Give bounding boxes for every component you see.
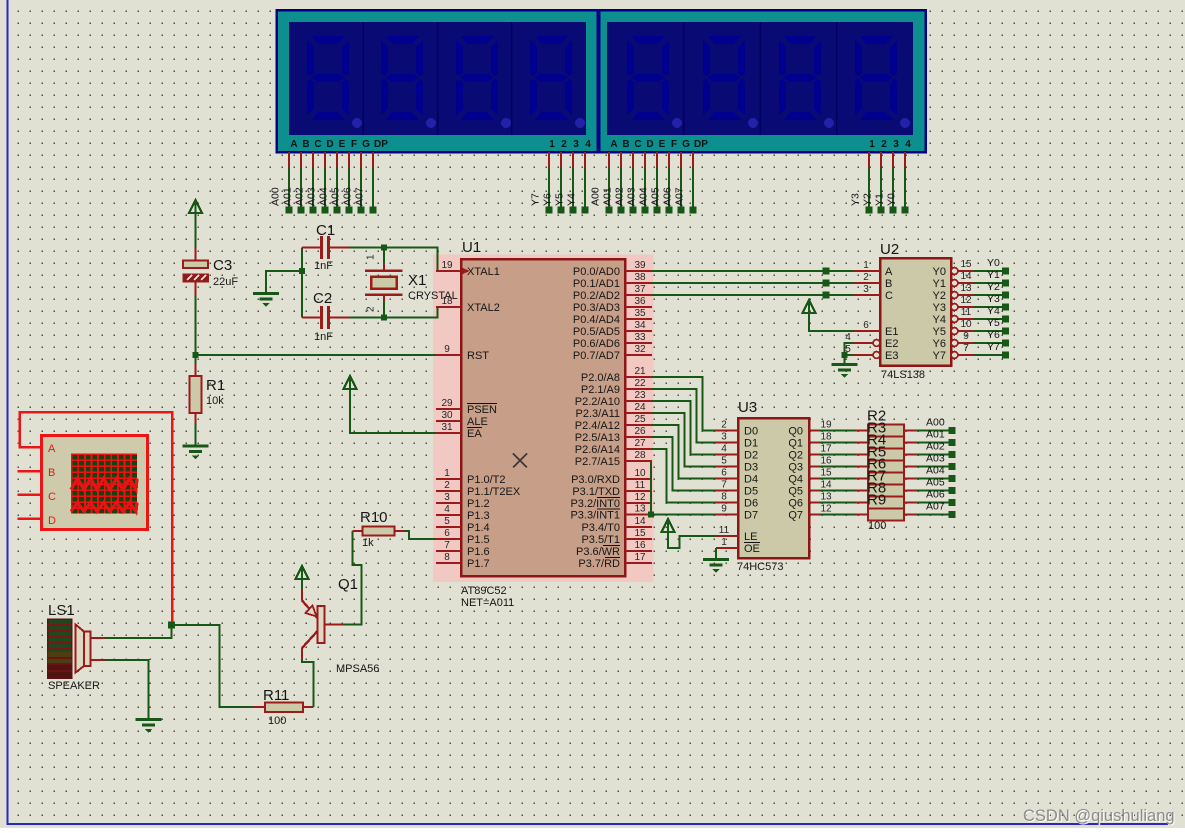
junction P2.7/P3.3 bbox=[648, 512, 654, 518]
svg-text:A01: A01 bbox=[926, 429, 945, 441]
capacitor C3 bbox=[183, 261, 208, 269]
wire VCC to Q1 emitter bbox=[301, 579, 303, 590]
svg-text:D1: D1 bbox=[744, 438, 758, 450]
svg-text:26: 26 bbox=[634, 426, 646, 437]
svg-text:1: 1 bbox=[444, 468, 450, 479]
U1 pin 37 (P0.2/AD2) bbox=[625, 294, 652, 296]
wire C3 to RST node bbox=[195, 282, 197, 296]
matrix LED grid bbox=[71, 454, 137, 514]
svg-text:C2: C2 bbox=[313, 290, 332, 307]
svg-text:1: 1 bbox=[549, 139, 555, 150]
svg-text:Q4: Q4 bbox=[788, 474, 803, 486]
svg-text:10k: 10k bbox=[206, 395, 224, 407]
svg-text:R9: R9 bbox=[867, 492, 886, 509]
terminal A05 bbox=[949, 487, 956, 494]
wire terminal Y4 bbox=[584, 152, 586, 167]
wire U2 Y0 output to terminal bbox=[974, 270, 1002, 272]
svg-text:2: 2 bbox=[444, 480, 450, 491]
U2 pin 12 (Y3) bbox=[951, 304, 958, 311]
U1 pin 16 (P3.6/WR) bbox=[625, 550, 652, 552]
U1 pin 27 (P2.6/A14) bbox=[625, 448, 652, 450]
U1 pin 10 (P3.0/RXD) bbox=[625, 478, 652, 480]
wire Q6 to resistor R8 bbox=[819, 502, 856, 504]
U1 pin 24 (P2.3/A11) bbox=[625, 412, 652, 414]
resistor R9 bbox=[856, 513, 869, 515]
svg-text:P3.2/INT0: P3.2/INT0 bbox=[570, 498, 620, 510]
svg-text:A02: A02 bbox=[926, 441, 945, 453]
wire P0.1 to U2 (net A B C) bbox=[652, 282, 854, 284]
svg-text:E3: E3 bbox=[885, 350, 898, 362]
svg-text:A05: A05 bbox=[650, 187, 662, 206]
wire terminal A07 bbox=[372, 152, 374, 167]
wire R6 to terminal A04 bbox=[917, 478, 950, 480]
U1 pin 38 (P0.1/AD1) bbox=[625, 282, 652, 284]
svg-text:24: 24 bbox=[634, 402, 646, 413]
power symbol VCC for U3 LE bbox=[662, 519, 675, 532]
svg-text:A05: A05 bbox=[330, 187, 342, 206]
resistor R10 bbox=[353, 530, 363, 532]
svg-text:Q3: Q3 bbox=[788, 462, 803, 474]
wire R9 to terminal A07 bbox=[917, 514, 950, 516]
svg-text:15: 15 bbox=[820, 468, 832, 479]
svg-text:A01: A01 bbox=[282, 187, 294, 206]
terminal Y1 bbox=[1002, 280, 1009, 287]
terminal A06 bbox=[949, 499, 956, 506]
resistor R5 bbox=[856, 465, 869, 467]
7-segment display DS2 body bbox=[599, 10, 926, 152]
wire P2.2 to U3 D2 bbox=[652, 401, 716, 455]
U3 pin 13 (Q6) bbox=[809, 501, 819, 503]
svg-text:P0.3/AD3: P0.3/AD3 bbox=[573, 302, 620, 314]
svg-text:P2.6/A14: P2.6/A14 bbox=[575, 444, 620, 456]
svg-text:Q2: Q2 bbox=[788, 450, 803, 462]
svg-text:Y2: Y2 bbox=[933, 290, 946, 302]
svg-text:G: G bbox=[682, 139, 690, 150]
svg-text:Y2: Y2 bbox=[987, 281, 1000, 293]
svg-text:4: 4 bbox=[905, 139, 911, 150]
crystal X1 bbox=[383, 248, 385, 264]
svg-text:P3.6/WR: P3.6/WR bbox=[576, 546, 620, 558]
svg-text:C3: C3 bbox=[213, 257, 232, 274]
U3 pin 15 (Q4) bbox=[809, 477, 819, 479]
speaker cone bbox=[76, 625, 85, 673]
svg-text:Y5: Y5 bbox=[933, 326, 946, 338]
wire Q1 to resistor R3 bbox=[819, 442, 856, 444]
display DS2 digit 4 bbox=[855, 36, 897, 120]
svg-text:74LS138: 74LS138 bbox=[881, 369, 925, 381]
wire terminal Y5 bbox=[572, 152, 574, 167]
svg-text:2: 2 bbox=[863, 272, 869, 283]
svg-text:F: F bbox=[351, 139, 357, 150]
svg-text:EA: EA bbox=[467, 428, 482, 440]
wire terminal A06 bbox=[680, 152, 682, 167]
U1 pin 39 (P0.0/AD0) bbox=[625, 270, 652, 272]
U3 pin 19 (Q0) bbox=[809, 429, 819, 431]
U2 pin 9 (Y6) bbox=[951, 340, 958, 347]
U1 pin 36 (P0.3/AD3) bbox=[625, 306, 652, 308]
wire U2 E2/E3 to ground bbox=[845, 343, 855, 364]
svg-text:31: 31 bbox=[441, 422, 453, 433]
U1 pin 25 (P2.4/A12) bbox=[625, 424, 652, 426]
svg-text:Q5: Q5 bbox=[788, 486, 803, 498]
svg-text:2: 2 bbox=[721, 420, 727, 431]
svg-text:P1.1/T2EX: P1.1/T2EX bbox=[467, 486, 521, 498]
svg-text:DP: DP bbox=[374, 139, 388, 150]
7-segment display DS1 body bbox=[277, 10, 598, 152]
U1 pin 11 (P3.1/TXD) bbox=[625, 490, 652, 492]
wire terminal Y6 bbox=[560, 152, 562, 167]
svg-text:ALE: ALE bbox=[467, 416, 488, 428]
U3 pin 11 (LE) bbox=[716, 535, 738, 537]
display DS2 digit 3 bbox=[779, 36, 821, 120]
node X1 pin1 junction bbox=[381, 245, 387, 251]
svg-text:Y4: Y4 bbox=[987, 305, 1000, 317]
svg-text:6: 6 bbox=[444, 528, 450, 539]
resistor R7 bbox=[856, 489, 869, 491]
wire terminal A01 bbox=[620, 152, 622, 167]
node speaker/R11/matrix junction bbox=[168, 622, 175, 629]
terminal Y6 bbox=[1002, 340, 1009, 347]
svg-text:MPSA56: MPSA56 bbox=[336, 663, 379, 675]
svg-text:C: C bbox=[634, 139, 641, 150]
svg-text:E: E bbox=[659, 139, 666, 150]
svg-text:100: 100 bbox=[268, 715, 286, 727]
wire C2 to XTAL2 node bbox=[350, 307, 438, 318]
resistor R11 bbox=[254, 706, 266, 708]
svg-text:E: E bbox=[339, 139, 346, 150]
U3 pin 14 (Q5) bbox=[809, 489, 819, 491]
wire R7 to terminal A05 bbox=[917, 490, 950, 492]
svg-text:A: A bbox=[885, 266, 893, 278]
U1 pin 3 (P1.2) bbox=[436, 502, 461, 504]
svg-text:D7: D7 bbox=[744, 510, 758, 522]
wire VCC to U3 LE bbox=[668, 532, 716, 548]
U1 pin 35 (P0.4/AD4) bbox=[625, 318, 652, 320]
svg-text:5: 5 bbox=[444, 516, 450, 527]
svg-text:1: 1 bbox=[721, 537, 727, 548]
svg-text:9: 9 bbox=[444, 344, 450, 355]
svg-text:1nF: 1nF bbox=[314, 260, 333, 272]
svg-text:LS1: LS1 bbox=[48, 602, 75, 619]
wire VCC to U2 E1 bbox=[809, 313, 854, 331]
svg-text:39: 39 bbox=[634, 260, 646, 271]
svg-text:XTAL2: XTAL2 bbox=[467, 302, 500, 314]
terminal Y7 bbox=[1002, 352, 1009, 359]
power symbol VCC for Q1 emitter bbox=[296, 566, 309, 579]
svg-text:A03: A03 bbox=[626, 187, 638, 206]
U1 pin 5 (P1.4) bbox=[436, 526, 461, 528]
U2 pin 4 (E2) bbox=[854, 342, 873, 344]
svg-text:22uF: 22uF bbox=[213, 276, 238, 288]
svg-text:R10: R10 bbox=[360, 509, 388, 526]
U3 pin 3 (D1) bbox=[716, 441, 738, 443]
U2 pin 7 (Y7) bbox=[951, 352, 958, 359]
svg-text:B: B bbox=[48, 467, 55, 479]
wire matrix pin A loop (bright red) bbox=[20, 412, 173, 622]
U1 pin 33 (P0.6/AD6) bbox=[625, 342, 652, 344]
svg-text:32: 32 bbox=[634, 344, 646, 355]
wire R4 to terminal A02 bbox=[917, 454, 950, 456]
display DS1 digit 2 bbox=[381, 36, 423, 120]
U2 pin 3 (C) bbox=[854, 294, 880, 296]
svg-text:C1: C1 bbox=[316, 222, 335, 239]
svg-text:P1.0/T2: P1.0/T2 bbox=[467, 474, 506, 486]
svg-text:8: 8 bbox=[444, 552, 450, 563]
display DS2 digit 2 bbox=[703, 36, 745, 120]
speaker terminal - wire to ground bbox=[91, 659, 106, 661]
svg-text:D4: D4 bbox=[744, 474, 758, 486]
svg-text:A04: A04 bbox=[926, 465, 945, 477]
wire U2 Y4 output to terminal bbox=[974, 318, 1002, 320]
svg-text:2: 2 bbox=[561, 139, 567, 150]
svg-text:16: 16 bbox=[634, 540, 646, 551]
U1 pin 4 (P1.3) bbox=[436, 514, 461, 516]
U3 pin 7 (D5) bbox=[716, 489, 738, 491]
svg-text:A07: A07 bbox=[926, 501, 945, 513]
svg-text:35: 35 bbox=[634, 308, 646, 319]
svg-text:E1: E1 bbox=[885, 326, 898, 338]
svg-text:4: 4 bbox=[444, 504, 450, 515]
svg-text:R11: R11 bbox=[263, 687, 289, 704]
svg-text:Y0: Y0 bbox=[933, 266, 946, 278]
svg-text:36: 36 bbox=[634, 296, 646, 307]
svg-text:P0.7/AD7: P0.7/AD7 bbox=[573, 350, 620, 362]
svg-text:P2.5/A13: P2.5/A13 bbox=[575, 432, 620, 444]
wire terminal Y2 bbox=[880, 152, 882, 167]
ground below U3 OE bbox=[703, 560, 729, 574]
svg-text:B: B bbox=[302, 139, 309, 150]
U2 pin 13 (Y2) bbox=[951, 292, 958, 299]
svg-text:A07: A07 bbox=[674, 187, 686, 206]
svg-text:11: 11 bbox=[635, 480, 646, 491]
svg-text:DP: DP bbox=[694, 139, 708, 150]
wire P2.5 to U3 D5 bbox=[652, 437, 716, 491]
wire C1 left / C2 left vertical bbox=[301, 248, 303, 318]
svg-text:D: D bbox=[646, 139, 653, 150]
U1 pin 9 (RST) bbox=[436, 354, 461, 356]
U1 center X mark bbox=[513, 454, 527, 468]
svg-text:2: 2 bbox=[366, 306, 377, 312]
svg-text:Y7: Y7 bbox=[933, 350, 946, 362]
transistor Q1 MPSA56 bbox=[301, 590, 303, 601]
wire terminal A06 bbox=[360, 152, 362, 167]
U1 pin 7 (P1.6) bbox=[436, 550, 461, 552]
power symbol VCC above C3 bbox=[189, 200, 202, 213]
U1 PSEN overline bbox=[467, 403, 497, 405]
power symbol VCC for U2 E1 bbox=[803, 300, 816, 313]
decoder U2 74LS138 body bbox=[880, 258, 951, 366]
svg-text:C: C bbox=[314, 139, 321, 150]
wire terminal Y7 bbox=[548, 152, 550, 167]
svg-text:A06: A06 bbox=[662, 187, 674, 206]
terminal A04 bbox=[949, 475, 956, 482]
svg-text:P2.4/A12: P2.4/A12 bbox=[575, 420, 620, 432]
svg-text:3: 3 bbox=[893, 139, 899, 150]
U1 pin 31 (EA) bbox=[436, 432, 461, 434]
latch U3 74HC573 body bbox=[738, 418, 809, 558]
U1 pin 15 (P3.5/T1) bbox=[625, 538, 652, 540]
U1 pin 8 (P1.7) bbox=[436, 562, 461, 564]
terminal Y5 bbox=[1002, 328, 1009, 335]
svg-text:1: 1 bbox=[863, 260, 869, 271]
svg-text:21: 21 bbox=[634, 366, 646, 377]
svg-text:Y2: Y2 bbox=[862, 193, 874, 206]
terminal A02 bbox=[949, 451, 956, 458]
svg-text:P1.6: P1.6 bbox=[467, 546, 490, 558]
svg-text:P1.4: P1.4 bbox=[467, 522, 490, 534]
wire Q1 collector to R11 bbox=[302, 660, 314, 708]
svg-text:10: 10 bbox=[634, 468, 646, 479]
ground below R1 bbox=[183, 446, 209, 460]
U2 pin 5 (E3) bbox=[854, 354, 873, 356]
wire P2.6 to U3 D6 bbox=[652, 449, 716, 503]
wire terminal A00 bbox=[288, 152, 290, 167]
svg-text:8: 8 bbox=[721, 492, 727, 503]
svg-text:6: 6 bbox=[863, 320, 869, 331]
svg-text:G: G bbox=[362, 139, 370, 150]
svg-text:13: 13 bbox=[960, 283, 972, 294]
wire Q1 base to R10 bbox=[325, 623, 344, 625]
wire U2 Y5 output to terminal bbox=[974, 330, 1002, 332]
svg-text:16: 16 bbox=[820, 456, 832, 467]
svg-text:12: 12 bbox=[634, 492, 646, 503]
wire U3 OE to ground bbox=[715, 548, 717, 559]
U3 OE overline bbox=[744, 542, 760, 544]
wire U2 Y1 output to terminal bbox=[974, 282, 1002, 284]
U2 pin 1 (A) bbox=[854, 270, 880, 272]
svg-text:9: 9 bbox=[721, 504, 727, 515]
U1 pin 13 (P3.3/INT1) bbox=[625, 513, 652, 515]
svg-text:P2.0/A8: P2.0/A8 bbox=[581, 372, 620, 384]
U2 pin 6 (E1) bbox=[854, 330, 880, 332]
svg-text:A02: A02 bbox=[294, 187, 306, 206]
wire junction to ground bbox=[266, 271, 302, 293]
U1 pin 21 (P2.0/A8) bbox=[625, 376, 652, 378]
svg-text:P0.2/AD2: P0.2/AD2 bbox=[573, 290, 620, 302]
svg-text:AT89C52: AT89C52 bbox=[461, 585, 507, 597]
wire R3 to terminal A01 bbox=[917, 442, 950, 444]
U1 pin 29 (PSEN) bbox=[436, 408, 461, 410]
op U1 highlight bbox=[433, 255, 654, 583]
U1 RD overline bbox=[605, 557, 620, 559]
wire P3.3/INT1 to U3 D7 bbox=[652, 514, 716, 516]
wire terminal A04 bbox=[336, 152, 338, 167]
wire junction to R11 bbox=[172, 625, 254, 707]
svg-text:P3.1/TXD: P3.1/TXD bbox=[572, 486, 620, 498]
svg-text:OE: OE bbox=[744, 543, 760, 555]
resistor R8 bbox=[856, 501, 869, 503]
U1 INT1 overline bbox=[597, 508, 620, 510]
wire Q4 to resistor R6 bbox=[819, 478, 856, 480]
svg-text:U3: U3 bbox=[738, 399, 757, 416]
svg-text:Y3: Y3 bbox=[933, 302, 946, 314]
svg-text:7: 7 bbox=[721, 480, 727, 491]
svg-text:Y3: Y3 bbox=[987, 293, 1000, 305]
U1 pin 2 (P1.1/T2EX) bbox=[436, 490, 461, 492]
svg-text:E2: E2 bbox=[885, 338, 898, 350]
svg-text:P0.0/AD0: P0.0/AD0 bbox=[573, 266, 620, 278]
wire U2 Y3 output to terminal bbox=[974, 306, 1002, 308]
svg-text:D2: D2 bbox=[744, 450, 758, 462]
resistor R2 bbox=[856, 429, 869, 431]
terminal A07 bbox=[949, 511, 956, 518]
wire U2 Y2 output to terminal bbox=[974, 294, 1002, 296]
terminal A00 bbox=[949, 427, 956, 434]
svg-text:CSDN @qiushuliang: CSDN @qiushuliang bbox=[1023, 807, 1175, 825]
svg-text:A07: A07 bbox=[354, 187, 366, 206]
svg-text:3: 3 bbox=[863, 284, 869, 295]
resistor R3 bbox=[856, 441, 869, 443]
U1 pin 26 (P2.5/A13) bbox=[625, 436, 652, 438]
terminal Y4 bbox=[1002, 316, 1009, 323]
wire terminal A02 bbox=[312, 152, 314, 167]
svg-text:34: 34 bbox=[634, 320, 646, 331]
resistor R6 bbox=[856, 477, 869, 479]
svg-text:Y4: Y4 bbox=[933, 314, 946, 326]
display DS1 digit 1 bbox=[307, 36, 349, 120]
svg-text:F: F bbox=[671, 139, 677, 150]
svg-text:7: 7 bbox=[963, 343, 969, 354]
svg-text:D: D bbox=[48, 515, 56, 527]
U1 pin 22 (P2.1/A9) bbox=[625, 388, 652, 390]
svg-text:A: A bbox=[290, 139, 297, 150]
svg-text:13: 13 bbox=[820, 492, 832, 503]
svg-text:Y3: Y3 bbox=[850, 193, 862, 206]
resistor R4 bbox=[856, 453, 869, 455]
U1 pin 17 (P3.7/RD) bbox=[625, 562, 652, 564]
U1 pin 32 (P0.7/AD7) bbox=[625, 354, 652, 356]
U3 pin 1 (OE) bbox=[716, 547, 738, 549]
wire terminal A02 bbox=[632, 152, 634, 167]
terminal Y2 bbox=[1002, 292, 1009, 299]
U1 XTAL1 pin arrow bbox=[462, 268, 470, 275]
svg-text:3: 3 bbox=[444, 492, 450, 503]
svg-text:D: D bbox=[326, 139, 333, 150]
wire R8 to terminal A06 bbox=[917, 502, 950, 504]
wire P2.0 to U3 D0 bbox=[652, 377, 716, 431]
capacitor C1 bbox=[302, 247, 320, 249]
svg-text:15: 15 bbox=[960, 259, 972, 270]
svg-text:Y1: Y1 bbox=[874, 193, 886, 206]
svg-text:4: 4 bbox=[585, 139, 591, 150]
svg-text:A02: A02 bbox=[614, 187, 626, 206]
svg-text:A01: A01 bbox=[602, 187, 614, 206]
svg-text:1k: 1k bbox=[362, 537, 374, 549]
svg-text:U2: U2 bbox=[880, 241, 899, 258]
U2 pin 10 (Y5) bbox=[951, 328, 958, 335]
wire R2 to terminal A00 bbox=[917, 430, 950, 432]
wire VCC to C3 bbox=[195, 213, 197, 247]
svg-text:Q6: Q6 bbox=[788, 498, 803, 510]
display DS1 digit 4 bbox=[530, 36, 572, 120]
svg-text:18: 18 bbox=[820, 432, 832, 443]
svg-text:Y0: Y0 bbox=[886, 193, 898, 206]
wire P2.1 to U3 D1 bbox=[652, 389, 716, 443]
U3 pin 9 (D7) bbox=[716, 513, 738, 515]
svg-text:14: 14 bbox=[820, 480, 832, 491]
svg-text:C: C bbox=[48, 491, 56, 503]
svg-text:11: 11 bbox=[961, 307, 972, 318]
svg-text:30: 30 bbox=[441, 410, 453, 421]
svg-text:XTAL1: XTAL1 bbox=[467, 266, 500, 278]
svg-text:4: 4 bbox=[845, 332, 851, 343]
svg-text:P2.1/A9: P2.1/A9 bbox=[581, 384, 620, 396]
U3 pin 4 (D2) bbox=[716, 453, 738, 455]
svg-text:13: 13 bbox=[634, 504, 646, 515]
wire terminal Y1 bbox=[892, 152, 894, 167]
matrix pin C bbox=[18, 494, 42, 497]
svg-text:P3.4/T0: P3.4/T0 bbox=[581, 522, 620, 534]
